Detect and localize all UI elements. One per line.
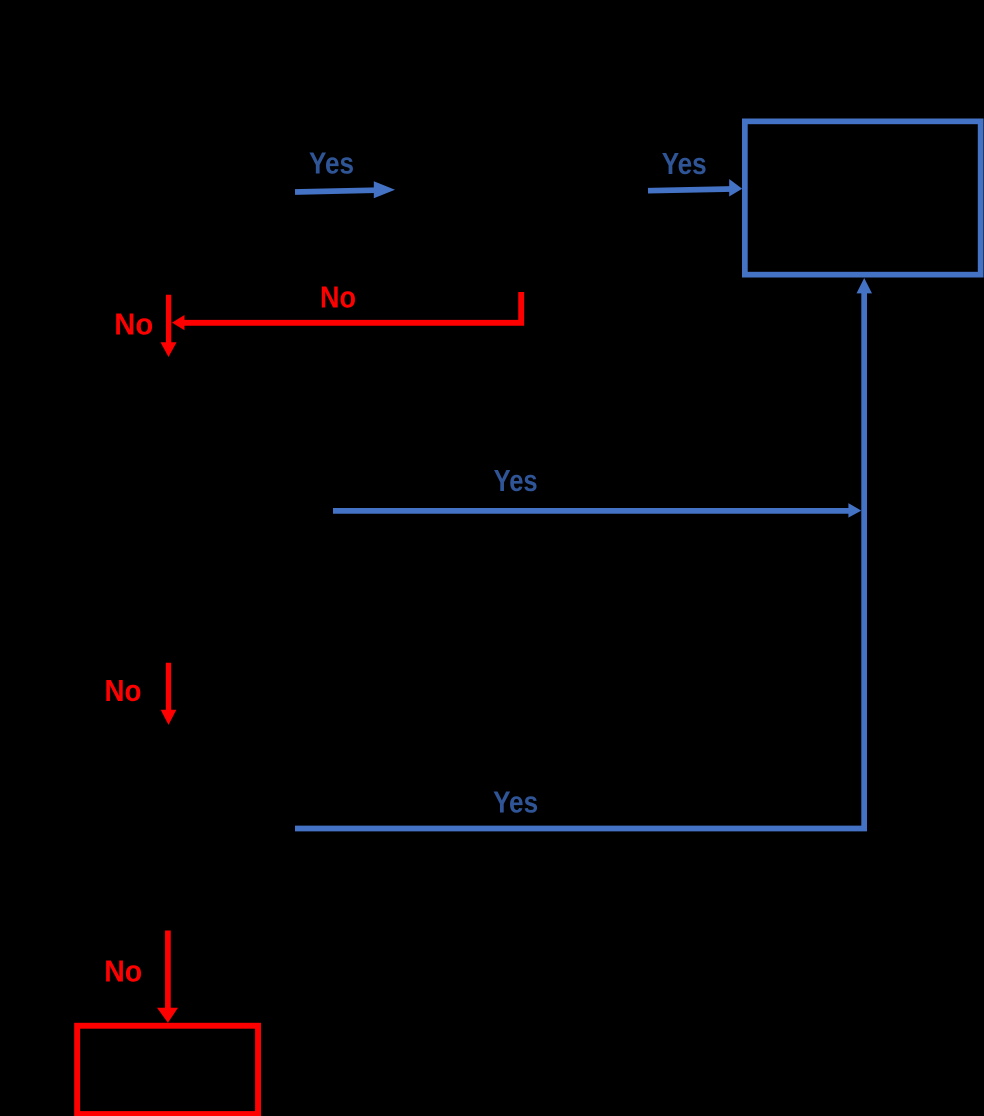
- arrowhead arrow1: [374, 181, 395, 198]
- wire blue elbow2 (long yes line, right then up to blue box): [295, 292, 864, 829]
- arrowhead red elbow (points left): [172, 315, 185, 330]
- box terminal (blue rectangle, top right): [745, 121, 981, 274]
- arrowhead red arrowC: [157, 1008, 178, 1023]
- arrowhead blue line1 (points right): [848, 503, 861, 517]
- svg-text:No: No: [104, 954, 142, 989]
- arrowhead blue elbow2 (points up into box): [857, 278, 873, 293]
- arrowhead arrow2: [729, 179, 742, 197]
- wire red arrowC shaft (into red box): [165, 931, 171, 1010]
- svg-text:No: No: [105, 673, 142, 708]
- svg-text:No: No: [320, 280, 356, 315]
- wire red elbow no-branch (down then left): [184, 292, 521, 323]
- arrowhead red arrowB: [161, 710, 177, 725]
- wire red arrowA shaft (short down arrow): [166, 295, 171, 344]
- svg-text:No: No: [114, 307, 153, 342]
- svg-text:Yes: Yes: [309, 146, 354, 181]
- svg-text:Yes: Yes: [493, 785, 538, 820]
- wire red arrowB shaft (short down arrow): [166, 663, 171, 711]
- wire arrow1 blue shaft: [295, 190, 376, 192]
- arrowhead red arrowA: [161, 342, 177, 357]
- box fail (red rectangle, bottom left): [77, 1026, 258, 1114]
- wire arrow2 blue shaft: [648, 189, 731, 191]
- svg-text:Yes: Yes: [494, 463, 538, 498]
- wire blue line1 (long yes line to vertical bus): [333, 508, 849, 514]
- svg-text:Yes: Yes: [662, 146, 707, 181]
